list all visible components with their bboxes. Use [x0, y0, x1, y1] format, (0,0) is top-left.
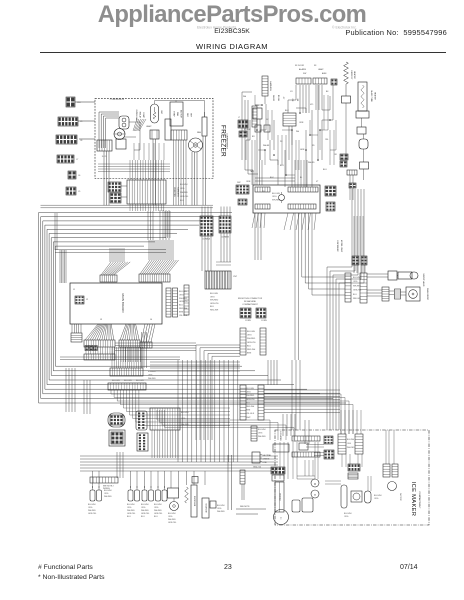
wire [350, 169, 364, 200]
dispenser resistor [185, 487, 189, 503]
wire bundle [178, 360, 238, 462]
svg-text:COMPRESSOR: COMPRESSOR [110, 99, 125, 101]
defrost thermostat [119, 116, 129, 129]
svg-text:FF: FF [314, 65, 317, 67]
wire bundle [117, 452, 123, 478]
labels [160, 110, 192, 118]
svg-text:YEL: YEL [325, 139, 329, 141]
im module stack [271, 467, 285, 512]
label [295, 65, 327, 75]
connector grid [85, 346, 97, 351]
wire [79, 138, 95, 140]
svg-text:GRN: GRN [300, 149, 305, 151]
door switch 1 [90, 486, 102, 501]
svg-text:DUAL WATER: DUAL WATER [426, 288, 429, 301]
power terminal box [252, 452, 271, 469]
svg-text:WH: WH [296, 131, 300, 133]
page title [0, 42, 464, 51]
svg-text:© Electrolux Inc.: © Electrolux Inc. [332, 26, 357, 30]
svg-text:WH-RED: WH-RED [88, 510, 96, 512]
svg-text:SOLENOID: SOLENOID [205, 503, 207, 513]
svg-text:GLASS TUBE: GLASS TUBE [370, 90, 373, 103]
svg-text:ORG: ORG [258, 432, 263, 434]
from-connector note [238, 298, 263, 306]
svg-text:GRN-YEL: GRN-YEL [154, 513, 162, 515]
svg-text:BLK-WH: BLK-WH [168, 513, 176, 515]
im conn grid [324, 450, 334, 459]
svg-text:BRN: BRN [247, 353, 252, 355]
svg-text:BLK: BLK [285, 110, 289, 112]
wire bundle [160, 210, 169, 240]
wire [78, 120, 95, 122]
svg-text:BLU: BLU [179, 305, 183, 307]
svg-text:BRN: BRN [246, 410, 251, 412]
im left strip [251, 426, 266, 441]
im water motor [351, 491, 362, 502]
component box [360, 162, 369, 169]
connector strip pair [240, 328, 266, 355]
im strip pair [383, 464, 398, 477]
svg-text:#6: #6 [78, 175, 81, 177]
svg-text:CONN B: CONN B [221, 237, 229, 239]
svg-text:FAN: FAN [197, 131, 201, 134]
connector grid 4A [200, 216, 213, 241]
svg-text:RELAY: RELAY [139, 112, 142, 119]
im wires2 [297, 442, 318, 479]
wire color list [247, 331, 257, 355]
svg-text:H: H [314, 494, 316, 497]
wire bundle [104, 139, 156, 206]
wire bundle [202, 207, 230, 217]
svg-text:BLK-WH: BLK-WH [148, 371, 156, 373]
light socket box [150, 130, 159, 139]
svg-text:NEUTRAL: NEUTRAL [263, 454, 272, 457]
connector grid [325, 186, 336, 196]
harness wire [41, 217, 333, 399]
connector strip [184, 285, 189, 315]
svg-text:HTR: HTR [190, 113, 192, 118]
wire bundle [152, 430, 178, 458]
svg-text:WH-RD: WH-RD [308, 162, 315, 164]
im capsule [365, 491, 372, 503]
dispenser control board [253, 185, 320, 213]
wire [367, 290, 406, 296]
board label J1 [73, 289, 76, 291]
switch label [141, 504, 149, 518]
svg-text:OR: OR [334, 154, 337, 156]
wire drops [60, 357, 180, 414]
svg-text:BLK-WH: BLK-WH [347, 439, 355, 441]
svg-text:J2: J2 [86, 299, 89, 301]
svg-text:BLK-WH: BLK-WH [88, 504, 96, 506]
svg-text:MAIN BOARD: MAIN BOARD [121, 293, 125, 313]
solenoid 2 [202, 498, 209, 518]
im wires3 [341, 410, 394, 467]
defrost heater bar [202, 112, 207, 136]
valve connector strip [360, 273, 367, 303]
svg-text:RED-WH: RED-WH [353, 298, 361, 300]
svg-text:ORG: ORG [272, 196, 277, 198]
wire bundle [295, 213, 312, 262]
harness wire [45, 225, 307, 389]
im box A [292, 498, 313, 512]
svg-text:RD-WH: RD-WH [277, 95, 279, 102]
terminal row [90, 477, 118, 490]
svg-text:WH-RED: WH-RED [104, 496, 112, 498]
wire color labels [353, 277, 361, 300]
svg-text:WH-RED: WH-RED [347, 447, 355, 449]
svg-text:FF DOOR: FF DOOR [295, 65, 305, 67]
connector grid [240, 308, 251, 322]
component box [253, 108, 262, 119]
wire fan [85, 324, 114, 340]
svg-text:HEATER: HEATER [374, 92, 377, 100]
svg-text:BLK-WH: BLK-WH [210, 293, 218, 295]
connector grid 4B [219, 216, 231, 239]
connector P12 [66, 97, 81, 107]
wire [363, 149, 365, 162]
connector strip [110, 368, 143, 376]
svg-text:DEF: DEF [186, 113, 188, 118]
connector note [148, 371, 156, 380]
bus wires [80, 456, 278, 471]
date code [400, 564, 418, 571]
freezer compartment box [95, 98, 213, 178]
svg-text:WH-RED: WH-RED [181, 424, 189, 426]
main control board [70, 283, 162, 324]
wire bundle [86, 347, 115, 354]
wire fan [72, 324, 81, 333]
harness wire [55, 246, 242, 366]
svg-text:FROM THIS CONNECTOR: FROM THIS CONNECTOR [238, 298, 263, 300]
svg-text:ORG: ORG [154, 507, 159, 509]
harness wire [47, 229, 294, 384]
svg-text:BLU: BLU [210, 306, 214, 308]
dark block [331, 79, 337, 85]
valve strip [382, 287, 389, 301]
svg-text:YEL-BLK: YEL-BLK [246, 413, 255, 415]
wire mesh [252, 95, 334, 185]
svg-text:BLK-WH: BLK-WH [179, 291, 187, 293]
glass tube heater [358, 82, 377, 111]
svg-text:BRN: BRN [179, 311, 184, 313]
svg-text:GRN-YEL: GRN-YEL [353, 290, 361, 292]
footnote functional parts [38, 564, 93, 571]
svg-text:ORG: ORG [141, 507, 146, 509]
svg-text:BLK-WH: BLK-WH [217, 505, 225, 507]
side strip [252, 106, 257, 127]
left connector [240, 470, 245, 500]
harness wire [49, 234, 281, 381]
svg-text:FREEZER: FREEZER [173, 187, 175, 197]
svg-text:MODULE: MODULE [279, 493, 281, 501]
svg-text:#9: #9 [80, 121, 83, 123]
defrost heater coil [344, 62, 349, 96]
connector strip [140, 342, 152, 348]
svg-text:Electrolux Home Products: Electrolux Home Products [197, 26, 237, 30]
dispenser interface block [150, 408, 189, 430]
svg-text:BLU: BLU [180, 200, 184, 202]
connector P8 [68, 171, 81, 179]
svg-text:J4: J4 [150, 319, 153, 321]
harness hatch [347, 170, 357, 188]
im small box [273, 443, 308, 452]
svg-text:WH-RED: WH-RED [141, 510, 149, 512]
svg-text:WH-RED: WH-RED [246, 395, 255, 397]
svg-text:WH-RED: WH-RED [210, 300, 219, 302]
wire bundle [202, 233, 231, 271]
svg-text:WH-BK: WH-BK [263, 145, 270, 147]
connector strip pair [166, 288, 178, 317]
im strip 2 [292, 452, 320, 457]
svg-text:GY: GY [282, 97, 284, 100]
valve connector strip [345, 273, 351, 302]
heater terminal box [342, 96, 351, 103]
svg-text:WH-RED: WH-RED [258, 436, 266, 438]
dark connector A [108, 182, 121, 192]
labels scatter2 [246, 91, 327, 183]
svg-text:GRN-YEL: GRN-YEL [168, 522, 176, 524]
im conn grid [324, 436, 333, 444]
connector P9 [57, 155, 79, 163]
wire [345, 103, 347, 160]
svg-text:WH-RED: WH-RED [353, 285, 361, 287]
svg-text:ORG: ORG [104, 493, 109, 495]
im heater circ [311, 490, 319, 498]
labels scatter3 [252, 91, 337, 193]
svg-text:PK: PK [280, 141, 283, 143]
wire bundle [112, 347, 143, 368]
svg-text:BLK-WH: BLK-WH [247, 331, 255, 333]
svg-text:GRN-YEL: GRN-YEL [180, 196, 188, 198]
wire jogs2 [246, 85, 330, 181]
svg-text:ORG: ORG [181, 418, 186, 420]
board text [272, 193, 281, 201]
svg-text:MOTOR: MOTOR [399, 493, 401, 501]
wire bundle [196, 345, 240, 440]
svg-text:ORG: ORG [179, 294, 184, 296]
svg-text:WH-BK: WH-BK [272, 95, 274, 102]
svg-text:BK: BK [296, 99, 298, 102]
svg-text:COMP: COMP [142, 112, 144, 119]
main harness bus [41, 205, 214, 208]
wire bundle [174, 140, 187, 206]
svg-text:WHT: WHT [246, 417, 251, 419]
valve strip2 [395, 289, 401, 299]
svg-text:COMPARTMENT: COMPARTMENT [242, 303, 258, 306]
board pin grid J2 [75, 296, 89, 304]
wire bundle [255, 213, 261, 260]
wire labels [179, 291, 189, 317]
svg-text:BLK-WH: BLK-WH [344, 513, 352, 515]
svg-text:WATER VALVE: WATER VALVE [422, 274, 425, 288]
svg-text:J1: J1 [73, 289, 76, 291]
svg-text:RED-WH: RED-WH [246, 406, 255, 408]
svg-text:MOTOR: MOTOR [180, 110, 182, 118]
label ICE MAKER [410, 482, 421, 517]
junction dots [256, 104, 331, 176]
page number [224, 564, 232, 571]
fine print left [197, 26, 237, 30]
svg-text:BLU: BLU [141, 516, 145, 518]
heater label [350, 70, 356, 80]
wire bundle [268, 360, 277, 385]
connector P7 [66, 187, 81, 195]
wire bundle [264, 390, 340, 412]
svg-text:BLK-WH: BLK-WH [180, 184, 188, 186]
connector grid [326, 202, 335, 211]
im strip pair tall [338, 434, 363, 454]
svg-text:WH: WH [243, 96, 247, 98]
wire [75, 101, 95, 103]
wire bundle [121, 347, 140, 362]
svg-text:LAMP: LAMP [146, 125, 152, 128]
wire tag columns [272, 95, 298, 102]
wire bundle [130, 204, 170, 240]
svg-text:T: T [280, 517, 282, 521]
wire labels [112, 380, 144, 382]
svg-text:BLK-WH: BLK-WH [181, 412, 189, 414]
svg-text:ORG: ORG [246, 392, 251, 394]
svg-text:HEATER: HEATER [353, 71, 356, 79]
component box [283, 113, 296, 126]
wire bundle [292, 360, 300, 430]
wire bundle [300, 85, 322, 113]
svg-text:WH-RED: WH-RED [148, 378, 156, 380]
run capacitor [165, 119, 171, 140]
valve labels [422, 274, 429, 301]
svg-text:ORG: ORG [148, 374, 153, 376]
label FREEZER [220, 125, 229, 157]
svg-text:RED-WH: RED-WH [247, 349, 256, 351]
wire fan [120, 324, 139, 340]
im wires [280, 442, 313, 479]
svg-text:SW: SW [303, 73, 306, 75]
svg-text:CONN A: CONN A [202, 238, 210, 241]
svg-text:BLK-WH: BLK-WH [127, 504, 135, 506]
wire bundle [257, 160, 262, 185]
wire bundle [149, 240, 173, 260]
wire jogs [245, 110, 312, 187]
wire [296, 85, 318, 160]
wire bundle [98, 143, 170, 180]
svg-text:J3: J3 [100, 319, 103, 321]
svg-text:BLK-WH: BLK-WH [258, 429, 266, 431]
svg-text:FAN: FAN [176, 112, 179, 117]
wire [354, 265, 365, 273]
svg-text:BLK-WH: BLK-WH [374, 495, 382, 497]
relay aux box [116, 139, 126, 149]
switch label [88, 504, 96, 515]
svg-text:ORG: ORG [247, 335, 252, 337]
svg-text:ORG: ORG [217, 508, 222, 510]
board strip [288, 204, 316, 209]
im circle [388, 482, 397, 491]
svg-text:GRN-YEL: GRN-YEL [141, 513, 149, 515]
svg-text:RED-WH: RED-WH [210, 310, 219, 312]
svg-text:GREEN: GREEN [263, 459, 270, 461]
door connector [236, 182, 249, 194]
fine print right [332, 26, 357, 30]
door switch 2 [128, 486, 140, 501]
heater base box [356, 111, 369, 118]
svg-text:VIO: VIO [310, 104, 314, 106]
svg-text:BK: BK [326, 91, 329, 93]
wire fan [141, 324, 155, 342]
svg-text:GRN-YEL: GRN-YEL [127, 513, 135, 515]
aux connector [239, 131, 247, 137]
wire drops [93, 471, 206, 488]
component pair [255, 125, 270, 132]
svg-text:ORN: ORN [299, 122, 304, 124]
svg-text:BLK-WH: BLK-WH [104, 490, 112, 492]
im motor [311, 479, 319, 487]
connector strip [84, 354, 115, 360]
wire [155, 101, 205, 118]
wire bundle [252, 213, 363, 256]
svg-text:BLU: BLU [280, 165, 284, 167]
svg-text:BLK-WH: BLK-WH [272, 193, 280, 195]
svg-text:GY: GY [290, 91, 293, 93]
svg-text:SEE NOTE: SEE NOTE [240, 506, 250, 508]
wire [367, 274, 398, 277]
svg-text:MODEL ONLY: MODEL ONLY [340, 240, 342, 253]
svg-text:ORG: ORG [347, 443, 352, 445]
connector strip [313, 78, 327, 84]
wire bundle [115, 332, 196, 368]
wire color list [246, 388, 256, 419]
svg-text:RD: RD [312, 145, 315, 147]
connector grid [256, 308, 267, 322]
vertical note [279, 431, 282, 441]
svg-text:BL: BL [300, 177, 302, 179]
svg-text:ORG: ORG [88, 507, 93, 509]
svg-text:ORG: ORG [344, 516, 349, 518]
svg-text:ORG: ORG [353, 281, 358, 283]
connector strip [71, 333, 82, 342]
svg-text:WH-RED: WH-RED [127, 510, 135, 512]
svg-text:GRN-YEL: GRN-YEL [210, 303, 220, 305]
svg-text:EVAP: EVAP [173, 111, 176, 117]
svg-text:DISPENSER: DISPENSER [336, 241, 338, 253]
svg-text:DISPENSER: DISPENSER [193, 496, 195, 507]
site logo [0, 1, 464, 29]
switch label [154, 504, 162, 518]
wire bundle [292, 160, 307, 187]
condenser fan motor [114, 129, 125, 140]
svg-text:BLK-WH: BLK-WH [353, 277, 361, 279]
svg-text:FREEZER: FREEZER [220, 125, 227, 157]
connector strip [84, 340, 115, 347]
wire bundle [192, 136, 206, 206]
harness wire [39, 213, 346, 404]
im feed wires [283, 414, 324, 456]
switch label [127, 504, 135, 518]
connector CN1 strip [100, 275, 117, 282]
svg-text:ALARM: ALARM [299, 68, 306, 71]
svg-text:#7: #7 [76, 159, 79, 161]
svg-text:OVERLOAD: OVERLOAD [135, 109, 138, 121]
svg-text:BLU: BLU [323, 169, 327, 171]
svg-text:ORG: ORG [180, 188, 185, 190]
harness block labels [173, 184, 188, 202]
svg-text:GRN-YEL: GRN-YEL [88, 513, 96, 515]
svg-text:OR: OR [291, 99, 293, 102]
wire bundle [230, 394, 353, 434]
model number [0, 28, 464, 35]
connector P10 [56, 135, 83, 144]
svg-text:COMPARTMENT: COMPARTMENT [418, 492, 421, 510]
